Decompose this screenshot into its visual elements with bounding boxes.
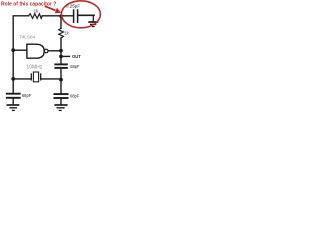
svg-text:74LS04: 74LS04 bbox=[19, 34, 35, 39]
svg-text:68pF: 68pF bbox=[70, 64, 80, 69]
svg-text:68pF: 68pF bbox=[22, 93, 32, 98]
svg-text:OUT: OUT bbox=[72, 54, 81, 59]
svg-text:Role of this capacitor ?: Role of this capacitor ? bbox=[1, 2, 56, 8]
svg-text:0.25µF: 0.25µF bbox=[66, 3, 80, 8]
svg-text:10MHz: 10MHz bbox=[26, 64, 42, 70]
svg-text:68pF: 68pF bbox=[70, 94, 80, 99]
